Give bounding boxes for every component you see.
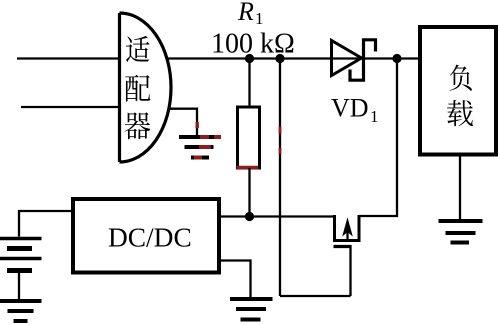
node: DC/DC output junction [245,212,254,221]
node: gate-sense junction [275,54,284,63]
ground (load) [439,221,483,243]
R1 bottom lead [248,168,250,217]
svg-text:VD: VD [331,94,369,123]
adapter (D-shape) [120,13,172,162]
R1 top lead [248,59,250,108]
wire: battery to DC/DC input [19,211,73,237]
adapter label 器 [125,112,151,139]
load label 载 [447,100,473,126]
svg-text:R: R [237,0,254,26]
diode VD1 Schottky cathode bar [350,40,376,80]
transistor Q1 gate bar [334,245,351,248]
wire: gate riser [349,245,351,296]
wire: DC/DC output to Q1 source [219,215,335,217]
svg-text:1: 1 [255,9,264,28]
adapter label 配 [125,75,150,102]
node: diode output junction [392,54,401,63]
load label 负 [450,65,472,91]
resistor R1 body [238,107,260,168]
wire: load to ground [459,155,461,221]
wire: battery to ground [18,273,20,300]
wire: gate sense vertical [279,59,281,297]
wire: adapter to ground [168,109,197,136]
wire: gate sense bottom run [280,295,351,297]
wire: DC/DC to ground [219,261,251,298]
transistor Q1 channel cup [335,215,360,241]
battery BT1 [0,239,42,271]
red print artifacts on adapter ground [194,137,221,158]
svg-text:DC/DC: DC/DC [108,222,192,252]
svg-text:1: 1 [370,107,379,126]
ground (battery) [0,301,42,321]
wire: main top rail (adapter to load) [166,57,420,59]
node: R1 top junction [245,54,254,63]
DC/DC converter box [73,199,219,273]
red print artifacts on sense wire [279,127,282,134]
load box [420,27,496,155]
transistor Q1 arrow [346,228,348,241]
wire: bottom input from left [21,106,120,108]
wire: top input from left [17,57,120,59]
adapter label 适 [126,36,150,62]
ground (adapter output) [179,137,221,158]
wire: Q1 drain to diode output node [359,59,397,217]
red print artifact on R1 bottom edge [237,166,259,169]
diode VD1 triangle [332,41,362,76]
ground (DC/DC) [230,299,273,320]
